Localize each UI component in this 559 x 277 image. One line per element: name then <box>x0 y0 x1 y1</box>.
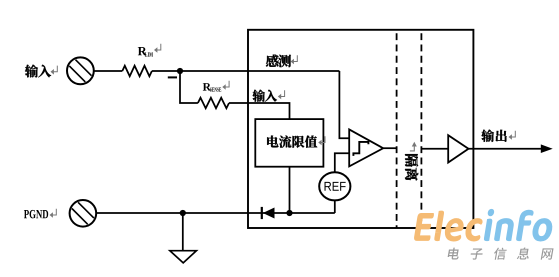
resistor RSENSE <box>198 98 229 109</box>
hysteresis symbol <box>353 142 368 156</box>
wire: input terminal to RLIM <box>94 70 123 72</box>
label RLIM <box>138 44 161 57</box>
junction: diode / current-limit return <box>286 210 292 216</box>
wire: REF bottom to ground rail <box>334 200 336 213</box>
comparator <box>349 129 383 166</box>
IC outline box <box>248 30 473 228</box>
wire: ground rail <box>96 212 335 214</box>
output buffer <box>448 135 468 162</box>
ground symbol <box>170 251 197 263</box>
node A junction <box>177 68 183 74</box>
wire: RLIM to node A <box>152 70 180 72</box>
PGND terminal <box>70 200 97 227</box>
REF source <box>319 172 350 200</box>
pin label 输入 (input pin) <box>253 90 285 102</box>
wire: down to ground symbol <box>182 213 184 251</box>
current limit block <box>255 119 323 167</box>
wire: sense line to bend <box>180 70 339 72</box>
wire: RSENSE to current-limit block top <box>229 103 290 119</box>
label PGND <box>24 209 56 219</box>
label 输入 (left input) <box>25 65 57 78</box>
isolation dashed line 1 <box>396 33 398 228</box>
junction: ground branch <box>180 210 186 216</box>
wire: barrier to output buffer <box>421 148 448 150</box>
label 输出 (output) <box>481 130 515 142</box>
pin label 感测 (sense) <box>266 55 297 68</box>
wire: buffer through box edge to output arrow <box>469 148 543 150</box>
Elecinfo watermark logo <box>413 209 555 242</box>
diode <box>261 207 263 219</box>
minus polarity mark <box>168 76 177 78</box>
resistor RLIM <box>122 66 152 77</box>
isolation dashed line 2 <box>420 33 422 228</box>
label 隔离 (isolation, rotated 90) <box>405 154 418 180</box>
label 电流限值 (current limit) <box>267 135 325 147</box>
wire: comparator output to barrier <box>383 147 396 149</box>
output arrowhead <box>541 144 553 153</box>
label RSENSE <box>203 81 229 92</box>
input terminal <box>67 57 94 84</box>
wire: sense drop to comparator + input <box>339 71 349 138</box>
wire: junction up to current limit block <box>289 167 291 213</box>
wire: node A down to RSENSE branch <box>180 71 198 103</box>
logo subtitle 电子信息网 <box>447 247 554 259</box>
wire: REF top to comparator - input <box>335 153 350 172</box>
